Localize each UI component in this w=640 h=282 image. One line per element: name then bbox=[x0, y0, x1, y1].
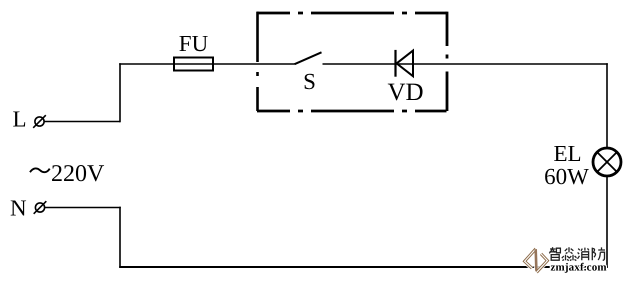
wire: left riser from bottom run to N terminal bbox=[119, 207, 121, 268]
wire: switch to lamp drop (through diode) bbox=[323, 63, 608, 65]
dash-dot enclosure box: left edge bbox=[256, 12, 259, 111]
dash-dot enclosure box: top edge bbox=[257, 12, 447, 15]
wire: left riser up to top run bbox=[119, 63, 121, 122]
wire: L terminal to riser bbox=[45, 121, 121, 123]
svg-text:zmjaxf.com: zmjaxf.com bbox=[551, 261, 607, 273]
lamp EL (circle with X) bbox=[593, 148, 621, 176]
svg-text:L: L bbox=[13, 107, 27, 132]
wire: lamp to bottom run bbox=[606, 177, 608, 268]
dash-dot enclosure box: right edge bbox=[446, 12, 449, 111]
svg-text:FU: FU bbox=[179, 31, 209, 56]
watermark chinese char 防 bbox=[592, 247, 605, 260]
svg-text:N: N bbox=[10, 196, 27, 221]
wire: N terminal lead bbox=[45, 207, 121, 209]
watermark chinese char 消 bbox=[578, 248, 589, 261]
svg-text:220V: 220V bbox=[51, 161, 105, 187]
watermark chinese char 淼 bbox=[562, 247, 577, 260]
svg-text:S: S bbox=[303, 69, 316, 94]
wire: top run from riser to switch contact bbox=[119, 63, 294, 65]
diode VD bbox=[396, 50, 414, 77]
terminal L (circle with slash) bbox=[33, 115, 46, 128]
label ~220V tilde bbox=[30, 168, 50, 172]
fuse FU (rectangle over wire) bbox=[174, 58, 213, 71]
svg-text:VD: VD bbox=[387, 79, 423, 106]
dash-dot enclosure box: bottom edge bbox=[257, 110, 447, 113]
watermark logo (brown stylized Z) bbox=[525, 249, 548, 272]
watermark chinese char 智 bbox=[549, 247, 560, 260]
wire: right drop from top run to lamp bbox=[606, 63, 608, 147]
svg-text:EL: EL bbox=[553, 141, 581, 166]
terminal N (circle with slash) bbox=[34, 201, 47, 214]
switch S (lever) bbox=[295, 52, 322, 64]
svg-text:60W: 60W bbox=[544, 164, 589, 189]
wire: bottom run bbox=[119, 266, 608, 268]
